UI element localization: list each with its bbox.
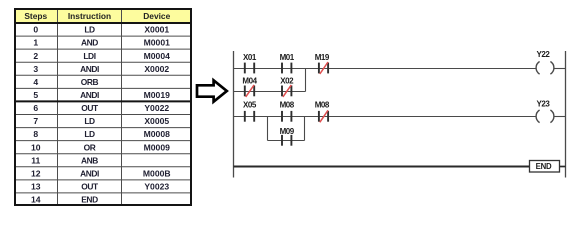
svg-text:2: 2: [33, 51, 38, 61]
svg-text:Y23: Y23: [537, 100, 551, 109]
svg-text:Y0023: Y0023: [144, 182, 169, 192]
svg-text:END: END: [536, 162, 552, 171]
svg-text:1: 1: [33, 38, 38, 48]
wire M09 parallel branch: [268, 140, 305, 142]
contact X05: [243, 101, 257, 122]
instruction table header background: [15, 9, 191, 22]
svg-text:X0002: X0002: [144, 64, 169, 74]
svg-text:ANDI: ANDI: [80, 90, 99, 100]
svg-text:8: 8: [33, 129, 38, 139]
block arrow: [197, 80, 227, 101]
coil Y23: [536, 100, 554, 123]
svg-text:12: 12: [31, 168, 41, 178]
svg-text:Device: Device: [143, 11, 170, 21]
svg-text:M09: M09: [280, 127, 295, 136]
left power rail: [233, 51, 235, 178]
svg-text:LDI: LDI: [83, 51, 95, 61]
coil Y22: [536, 50, 554, 74]
svg-text:3: 3: [33, 64, 38, 74]
svg-text:AND: AND: [81, 38, 98, 48]
svg-text:10: 10: [31, 142, 41, 152]
contact M08 (NC): [315, 101, 330, 123]
svg-text:X0001: X0001: [144, 25, 169, 35]
svg-text:ORB: ORB: [81, 77, 99, 87]
right power rail: [565, 51, 567, 178]
svg-text:13: 13: [31, 182, 41, 192]
svg-text:X0005: X0005: [144, 116, 169, 126]
END instruction box: [530, 161, 560, 173]
svg-text:LD: LD: [84, 116, 95, 126]
svg-text:6: 6: [33, 103, 38, 113]
wire rung 1 coil to rail: [554, 68, 566, 70]
svg-text:11: 11: [31, 155, 40, 165]
instruction table rows: [31, 25, 171, 205]
svg-text:M19: M19: [315, 53, 330, 62]
contact X02 (NC): [280, 77, 294, 97]
instruction table grid: [14, 8, 192, 206]
svg-text:4: 4: [33, 77, 38, 87]
contact M01: [280, 53, 295, 73]
svg-text:M04: M04: [242, 77, 257, 86]
contact M08: [280, 101, 295, 122]
svg-text:LD: LD: [84, 25, 95, 35]
svg-text:END: END: [81, 195, 98, 205]
contact M04 (NC): [242, 77, 257, 97]
svg-text:M0008: M0008: [144, 129, 170, 139]
svg-text:M000B: M000B: [143, 168, 171, 178]
svg-text:OUT: OUT: [81, 103, 99, 113]
svg-text:ANDI: ANDI: [80, 64, 99, 74]
svg-text:Steps: Steps: [24, 11, 47, 21]
svg-text:0: 0: [33, 25, 38, 35]
contact X01: [243, 53, 257, 73]
instruction table header text: [24, 11, 170, 21]
svg-text:LD: LD: [84, 129, 95, 139]
svg-text:Y22: Y22: [537, 50, 551, 59]
svg-text:14: 14: [31, 195, 41, 205]
wire branch junction riser: [305, 69, 307, 92]
wire rung 2 coil to rail: [554, 116, 566, 118]
wire END box to rail: [560, 166, 566, 168]
svg-text:Instruction: Instruction: [68, 11, 111, 21]
contact M09: [280, 127, 295, 146]
svg-text:X02: X02: [280, 77, 294, 86]
svg-text:M08: M08: [315, 101, 330, 110]
svg-text:X05: X05: [243, 101, 257, 110]
svg-text:5: 5: [33, 90, 38, 100]
svg-text:Y0022: Y0022: [144, 103, 169, 113]
svg-text:M08: M08: [280, 101, 295, 110]
wire rung 1: [234, 68, 537, 70]
svg-text:OUT: OUT: [81, 182, 99, 192]
contact M19 (NC): [315, 53, 330, 74]
svg-text:OR: OR: [84, 142, 96, 152]
wire rung 1 parallel branch: [234, 91, 306, 93]
svg-text:M0004: M0004: [144, 51, 170, 61]
svg-text:M0001: M0001: [144, 38, 170, 48]
instruction table thick borders: [14, 9, 192, 205]
wire END rung: [234, 166, 530, 168]
svg-text:7: 7: [33, 116, 38, 126]
svg-text:M0019: M0019: [144, 90, 170, 100]
wire M09 branch left riser: [267, 117, 269, 141]
wire M09 branch right riser: [304, 117, 306, 141]
svg-text:M0009: M0009: [144, 142, 170, 152]
svg-text:X01: X01: [243, 53, 257, 62]
svg-text:ANDI: ANDI: [80, 168, 99, 178]
svg-text:ANB: ANB: [81, 155, 98, 165]
svg-text:M01: M01: [280, 53, 295, 62]
wire rung 2: [234, 116, 537, 118]
